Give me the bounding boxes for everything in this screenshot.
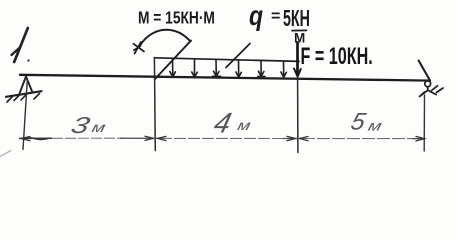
- distributed load arrow 4: [236, 60, 242, 77]
- roller support B legs and hatch: [420, 86, 444, 97]
- svg-text:=: =: [271, 8, 280, 25]
- roller support B slash: [419, 61, 430, 81]
- q leader line: [226, 44, 250, 68]
- distributed load arrow 5: [258, 61, 265, 77]
- svg-text:М = 15КН·М: М = 15КН·М: [138, 8, 215, 28]
- moment arc M: [139, 30, 190, 47]
- dim arrow left of 4m: [158, 136, 167, 140]
- svg-text:q: q: [249, 1, 263, 32]
- roller support B circle: [425, 81, 431, 87]
- dimension line scribble left: [23, 138, 49, 139]
- dim arrow right of 3m: [145, 136, 154, 140]
- distributed load top line: [155, 58, 300, 62]
- extension line at support B: [423, 95, 425, 151]
- distributed load arrow 3: [213, 60, 221, 76]
- pin support A: [6, 59, 42, 102]
- extension line at support A: [23, 80, 27, 150]
- distributed load arrow 2: [192, 60, 197, 77]
- extension line under F: [297, 79, 299, 153]
- force F arrow: [296, 43, 299, 75]
- beam: [20, 75, 430, 81]
- distributed load arrow 6: [281, 61, 287, 77]
- svg-text:5КН: 5КН: [283, 7, 310, 32]
- dim arrow right of 4m: [287, 136, 296, 140]
- moment arrowhead: [134, 42, 145, 54]
- problem number 1: [12, 28, 28, 62]
- dim arrow left of 3m: [21, 137, 30, 141]
- svg-text:F = 10КН.: F = 10КН.: [301, 43, 373, 70]
- distributed load left edge + extension line: [153, 58, 156, 151]
- distributed load arrow 1: [170, 60, 176, 77]
- moment lever: [155, 41, 191, 80]
- dimension line: [19, 137, 425, 140]
- dim arrow right of 5m: [416, 136, 425, 141]
- dim arrow left of 5m: [300, 137, 309, 141]
- stray mark bottom-left: [0, 151, 11, 157]
- fraction bar of q units: [292, 29, 307, 31]
